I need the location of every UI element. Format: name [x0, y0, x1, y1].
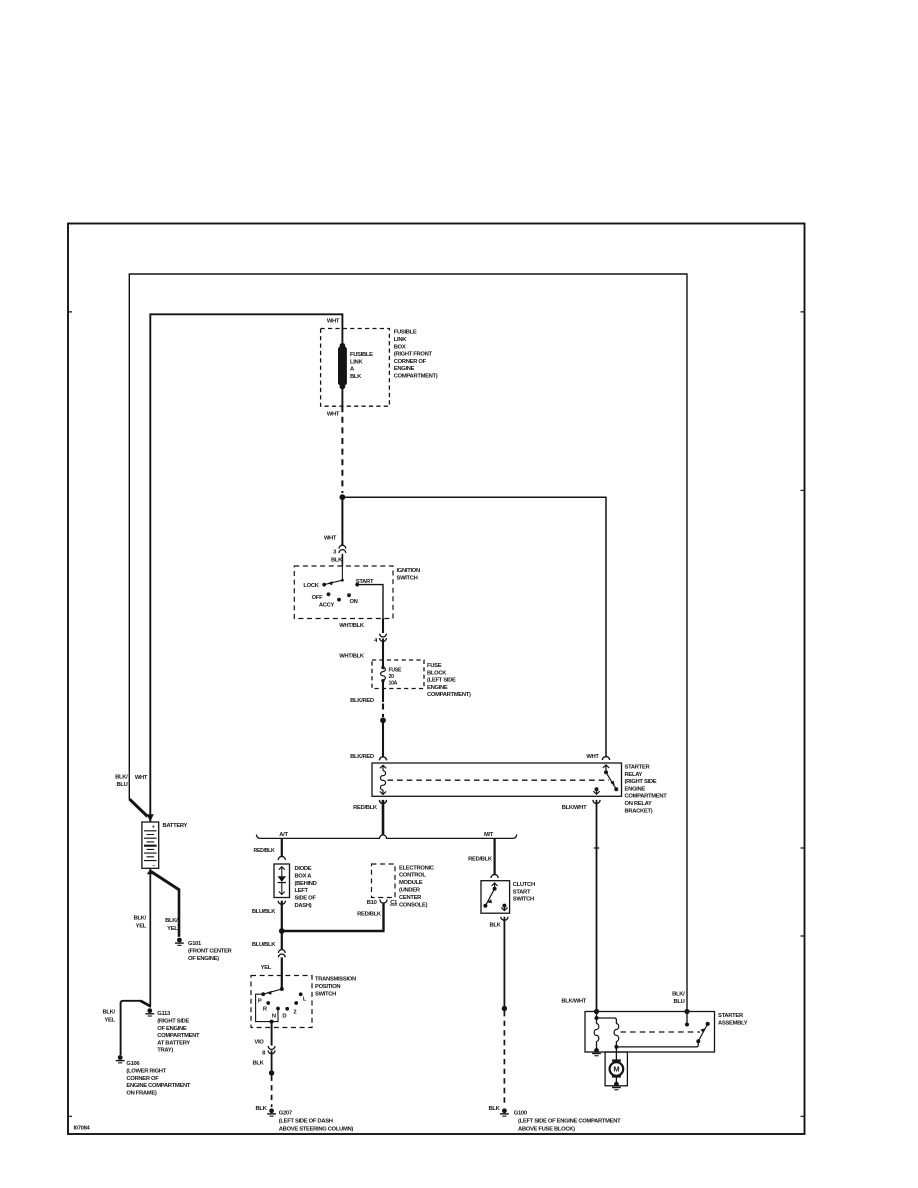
relay switch pivot arrow (down into pivot) [603, 765, 609, 770]
svg-text:BLK/: BLK/ [672, 992, 685, 998]
svg-text:COMPARTMENT): COMPARTMENT) [427, 692, 471, 698]
clutch start switch box [481, 881, 510, 914]
starter motor box [605, 1052, 627, 1086]
fusible link A [338, 343, 347, 389]
svg-text:M/T: M/T [484, 832, 494, 838]
TPS common strap P-N [256, 994, 278, 1021]
wire BLK/WHT relay to starter assembly [596, 800, 598, 1012]
svg-text:IGNITION: IGNITION [397, 568, 420, 574]
label RED/BLK below relay [353, 805, 378, 811]
svg-text:COMPARTMENT: COMPARTMENT [625, 794, 668, 800]
svg-text:OF ENGINE): OF ENGINE) [188, 956, 219, 962]
svg-text:G101: G101 [188, 941, 202, 947]
svg-text:BLK/: BLK/ [165, 918, 178, 924]
label BLK/YEL (right, G101 branch) [165, 918, 178, 932]
svg-text:BRACKET): BRACKET) [625, 808, 653, 814]
wire BLK below clutch switch [503, 917, 505, 1006]
svg-text:(LEFT SIDE OF ENGINE COMPARTME: (LEFT SIDE OF ENGINE COMPARTMENT [518, 1119, 621, 1125]
svg-text:WHT/BLK: WHT/BLK [339, 623, 365, 629]
label BLK/WHT above starter [561, 999, 586, 1005]
svg-text:CLUTCH: CLUTCH [513, 882, 535, 888]
svg-text:BLK/WHT: BLK/WHT [561, 999, 586, 1005]
clutch switch output contact [502, 904, 506, 908]
ignition lever (to LOCK) [324, 580, 342, 584]
relay output contact [595, 787, 599, 791]
svg-text:(LEFT SIDE: (LEFT SIDE [427, 678, 456, 684]
svg-text:BOX A: BOX A [295, 873, 313, 879]
svg-text:SWITCH: SWITCH [513, 897, 534, 903]
wire starter coil feed [596, 1012, 598, 1024]
svg-text:YEL: YEL [167, 926, 178, 932]
label BLK/BLU near battery [115, 774, 128, 788]
starter solenoid actuation dashed line [621, 1031, 701, 1033]
svg-text:N: N [272, 1013, 276, 1019]
diode D1 [278, 876, 286, 882]
svg-text:START: START [513, 889, 531, 895]
wire BLK dashed to G207 [271, 1076, 273, 1108]
svg-text:RED/BLK: RED/BLK [353, 805, 378, 811]
svg-text:BLOCK: BLOCK [427, 670, 447, 676]
ignition switch box (dashed) [294, 566, 393, 619]
contact ON [347, 593, 351, 597]
contact D [285, 1007, 289, 1011]
border tick marks [68, 312, 805, 1116]
wire WHT junction to starter relay feed (horizontal) [342, 497, 606, 757]
svg-text:2: 2 [293, 1009, 296, 1015]
svg-text:BOX: BOX [394, 344, 406, 350]
TPS pivot [280, 987, 284, 991]
svg-text:I07084: I07084 [74, 1126, 91, 1132]
svg-text:YEL: YEL [104, 1017, 115, 1023]
contact LOCK [322, 583, 326, 587]
ground G106 [116, 1055, 125, 1063]
wire WHT/BLK out of ignition switch [382, 619, 384, 634]
svg-text:10A: 10A [389, 680, 398, 686]
relay coil [380, 771, 385, 790]
svg-text:LINK: LINK [350, 359, 363, 365]
svg-text:TRANSMISSION: TRANSMISSION [315, 977, 356, 983]
motor brush (bottom) [612, 1075, 621, 1077]
svg-text:(FRONT CENTER: (FRONT CENTER [188, 949, 233, 955]
label BLK/YEL (center) [134, 916, 147, 930]
svg-text:ENGINE: ENGINE [625, 786, 646, 792]
figure id I07084 [74, 1126, 91, 1132]
wire WHT junction down to ignition switch [341, 497, 343, 545]
svg-text:WHT: WHT [135, 775, 148, 781]
contact ACCY [337, 598, 341, 602]
svg-text:ASSEMBLY: ASSEMBLY [718, 1020, 748, 1026]
svg-text:WHT: WHT [327, 319, 340, 325]
svg-text:LINK: LINK [394, 337, 407, 343]
svg-text:RED/BLK: RED/BLK [357, 911, 382, 917]
node junction BLK [269, 1070, 274, 1075]
wire WHT loop (battery + to fusible link) [150, 314, 342, 821]
contact 2 [294, 1001, 298, 1005]
svg-text:P: P [258, 998, 262, 1004]
clutch switch input arrow (up) [492, 883, 498, 887]
wire BLK dashed to G100 [503, 1011, 505, 1107]
svg-text:(LOWER RIGHT: (LOWER RIGHT [126, 1069, 166, 1075]
svg-text:CONSOLE): CONSOLE) [399, 902, 428, 908]
svg-text:FUSE: FUSE [427, 663, 442, 669]
svg-text:G100: G100 [514, 1111, 527, 1117]
svg-text:YEL: YEL [136, 923, 147, 929]
label BLK/BLU above starter [672, 992, 685, 1006]
svg-text:DASH): DASH) [295, 903, 312, 909]
svg-text:SWITCH: SWITCH [315, 991, 336, 997]
svg-text:BLK: BLK [252, 1060, 264, 1066]
node starter coil branch [595, 1016, 599, 1020]
wire BLK/RED below fuse block [382, 681, 384, 702]
wire branch to G106 (thick elbow) [141, 1001, 151, 1006]
wire ignition input to pivot [341, 566, 343, 580]
svg-text:ON: ON [349, 599, 357, 605]
wire VIO out of TPS [271, 1022, 273, 1046]
diode output arrow (down) [279, 883, 285, 894]
svg-text:SIDE OF: SIDE OF [295, 896, 317, 902]
label DIODE BOX A [295, 866, 317, 909]
bus bar A/T M/T split [256, 835, 516, 839]
node battery - terminal arrow [147, 869, 154, 875]
ground G113 [145, 1008, 154, 1016]
wire branch to pull-in coil [597, 1018, 617, 1024]
svg-text:FUSE: FUSE [389, 667, 402, 673]
svg-text:SWITCH: SWITCH [397, 575, 418, 581]
battery plates [144, 831, 157, 842]
wire BLK/RED to starter relay coil [382, 720, 384, 757]
svg-text:ON RELAY: ON RELAY [625, 801, 652, 807]
svg-text:WHT: WHT [586, 754, 599, 760]
starter pull-in coil [614, 1024, 619, 1042]
svg-text:BLK: BLK [350, 374, 362, 380]
svg-text:BLU/BLK: BLU/BLK [252, 942, 276, 948]
svg-text:ON FRAME): ON FRAME) [126, 1090, 157, 1096]
svg-text:BLK/: BLK/ [134, 916, 147, 922]
svg-text:FUSIBLE: FUSIBLE [394, 330, 417, 336]
wire BLK/BLU diagonal into battery + [130, 799, 148, 816]
starter solenoid switch lever [696, 1039, 700, 1043]
contact L [299, 992, 303, 996]
svg-text:LEFT: LEFT [295, 888, 309, 894]
label BLK/YEL (G106 branch) [102, 1010, 115, 1024]
svg-text:ELECTRONIC: ELECTRONIC [399, 865, 435, 871]
node battery + terminal arrow [147, 814, 154, 822]
svg-text:+: + [152, 825, 155, 831]
fuse block box (dashed) [372, 660, 424, 689]
svg-text:TRAY): TRAY) [157, 1048, 173, 1054]
connector arc at relay switch output [593, 800, 600, 804]
label BATTERY [163, 823, 188, 829]
svg-text:(LEFT SIDE OF DASH: (LEFT SIDE OF DASH [279, 1119, 333, 1125]
node BLK/WHT at starter box [594, 1009, 599, 1014]
svg-text:CORNER OF: CORNER OF [394, 359, 427, 365]
svg-text:BLK: BLK [255, 1106, 267, 1112]
svg-text:M: M [613, 1065, 619, 1074]
svg-text:RED/BLK: RED/BLK [468, 856, 493, 862]
battery B1 [142, 822, 159, 868]
wire battery - center down to G113 [149, 869, 151, 1008]
wire RED/BLK A/T branch [281, 838, 283, 857]
svg-text:VIO: VIO [254, 1039, 264, 1045]
wire RED/BLK relay to A/T-M/T bus [382, 800, 385, 835]
wire RED/BLK ECM to junction [283, 903, 385, 931]
wire BLK/BLU to solenoid fixed contact [686, 1012, 688, 1025]
diode input arrow (up) [279, 867, 285, 877]
wire WHT dashed drop to junction [341, 406, 343, 493]
svg-text:20: 20 [389, 674, 395, 680]
label WHT above fusible link box [327, 319, 340, 325]
label FUSE BLOCK (right of box) [427, 663, 471, 698]
wire BLU/BLK diode to junction [281, 901, 283, 931]
TPS lever to P [263, 989, 282, 994]
svg-text:BLK/: BLK/ [102, 1010, 115, 1016]
contact START [355, 583, 359, 587]
motor brush (top) [612, 1059, 621, 1061]
svg-text:(BEHIND: (BEHIND [295, 881, 317, 887]
svg-text:OF ENGINE: OF ENGINE [157, 1026, 187, 1032]
svg-text:CORNER OF: CORNER OF [126, 1076, 159, 1082]
connector 4 (inline) [380, 634, 387, 637]
label M/T [484, 832, 494, 838]
label WHT above relay switch input [586, 754, 599, 760]
contact P [261, 992, 265, 996]
starter motor M [610, 1062, 624, 1076]
svg-text:MODULE: MODULE [399, 880, 423, 886]
connector 3 (inline) [339, 545, 346, 548]
relay coil terminal arrow (up) [380, 765, 386, 771]
ground G207 [267, 1108, 276, 1116]
svg-text:WHT/BLK: WHT/BLK [339, 654, 365, 660]
node ignition pivot [341, 579, 344, 582]
node BLK/BLU at starter box [684, 1009, 689, 1014]
svg-text:D: D [282, 1013, 286, 1019]
wire BLK/RED dashed segment [382, 704, 384, 718]
fusible link box (dashed) [321, 329, 390, 407]
wire to motor [615, 1047, 617, 1060]
border frame [68, 224, 805, 1135]
svg-text:WHT: WHT [327, 412, 340, 418]
ground starter hold-in coil [592, 1048, 601, 1056]
tick on BLK/WHT wire [594, 847, 599, 849]
svg-text:CENTER: CENTER [399, 895, 422, 901]
connector arc at clutch start switch input [491, 874, 498, 878]
transmission position switch box (dashed) [251, 976, 312, 1028]
svg-text:WHT: WHT [324, 535, 337, 541]
svg-text:ENGINE: ENGINE [394, 366, 415, 372]
label WHT below box [327, 412, 340, 418]
svg-text:G106: G106 [126, 1061, 140, 1067]
svg-text:COMPARTMENT: COMPARTMENT [157, 1033, 200, 1039]
svg-text:B10: B10 [367, 900, 377, 906]
svg-text:BLK: BLK [489, 922, 501, 928]
connector arc at relay coil input [379, 757, 386, 761]
svg-text:ENGINE COMPARTMENT: ENGINE COMPARTMENT [126, 1083, 190, 1089]
label STARTER RELAY [625, 765, 668, 815]
svg-text:(RIGHT SIDE: (RIGHT SIDE [625, 779, 657, 785]
connector arc at clutch switch output [501, 917, 508, 921]
contact OFF [327, 592, 331, 596]
fuse 20 10A [381, 666, 384, 669]
clutch switch pivot [493, 887, 497, 891]
svg-text:LOCK: LOCK [303, 583, 319, 589]
svg-text:YEL: YEL [261, 965, 272, 971]
relay switch pivot [604, 770, 608, 774]
node junction WHT [340, 494, 346, 500]
relay coil terminal arrow (down) [380, 790, 386, 794]
svg-text:(UNDER: (UNDER [399, 888, 421, 894]
svg-text:BLK/: BLK/ [115, 774, 128, 780]
svg-text:OFF: OFF [312, 595, 323, 601]
connector arc at diode box input [278, 856, 285, 860]
label A/T [279, 832, 288, 838]
svg-text:G113: G113 [157, 1011, 171, 1017]
svg-text:BLK: BLK [488, 1106, 500, 1112]
wire hold-in coil to ground [596, 1041, 598, 1049]
wire WHT/BLK to fuse block [382, 639, 384, 667]
svg-text:ACCY: ACCY [319, 603, 335, 609]
svg-text:G207: G207 [279, 1111, 292, 1117]
connector arc at relay switch input [602, 756, 609, 760]
svg-text:BLK/RED: BLK/RED [350, 698, 374, 704]
starter relay box [372, 763, 622, 796]
wire pull-in coil to solenoid contact [616, 1043, 698, 1047]
starter assembly box [585, 1012, 715, 1053]
contact N [276, 1007, 280, 1011]
svg-text:ABOVE STEERING COLUMN): ABOVE STEERING COLUMN) [279, 1127, 354, 1133]
svg-text:FUSIBLE: FUSIBLE [350, 352, 373, 358]
wire BLK below connector 8 [271, 1050, 273, 1070]
diode box A [274, 864, 290, 898]
svg-text:AT BATTERY: AT BATTERY [157, 1040, 190, 1046]
svg-text:BLK/WHT: BLK/WHT [562, 805, 587, 811]
connector arc at diode box output [278, 901, 285, 905]
node junction BLU/BLK [279, 928, 285, 934]
svg-text:COMPARTMENT): COMPARTMENT) [394, 374, 438, 380]
node junction BLK (M/T) [502, 1006, 507, 1011]
clutch switch lever end contact [483, 904, 487, 908]
connector arc at relay coil output [379, 800, 386, 804]
wire WHT below fusible link (solid stub) [341, 385, 343, 406]
svg-text:POSITION: POSITION [315, 984, 340, 990]
wire battery - to G101 (thick diagonal) [151, 872, 179, 890]
node TPS output [270, 1020, 274, 1024]
relay actuation dashed line [388, 779, 610, 781]
clutch switch output arrow (down) [501, 906, 507, 911]
svg-text:BLU: BLU [116, 782, 127, 788]
svg-text:STARTER: STARTER [718, 1013, 744, 1019]
node junction BLK/RED [380, 717, 386, 723]
svg-text:ENGINE: ENGINE [427, 685, 448, 691]
label BLK/WHT below relay [562, 805, 587, 811]
svg-text:A/T: A/T [279, 832, 288, 838]
wire BLK/YEL down to G101 [178, 889, 181, 937]
wire BLK/BLU main loop (battery + to starter assembly) [129, 274, 687, 1012]
svg-text:RELAY: RELAY [625, 772, 643, 778]
svg-text:BLU/BLK: BLU/BLK [252, 909, 276, 915]
svg-text:BLK: BLK [331, 558, 343, 564]
electronic control module box (dashed) [372, 864, 396, 898]
relay switch lever [606, 772, 616, 789]
svg-text:−: − [152, 863, 155, 869]
label FUSIBLE LINK BOX (right of box) [394, 330, 438, 380]
node pull-in coil output [615, 1041, 617, 1047]
label WHT above connector 3 [324, 535, 337, 541]
svg-text:CONTROL: CONTROL [399, 873, 426, 879]
wire START to ignition output [357, 585, 383, 619]
wire BLU/BLK junction to connector [281, 931, 283, 950]
svg-text:BLK/RED: BLK/RED [350, 754, 374, 760]
connector C1 at ECM pin B10 [380, 900, 387, 904]
svg-text:DIODE: DIODE [295, 866, 312, 872]
connector 8 (inline) [268, 1046, 275, 1049]
ground G101 [175, 938, 184, 946]
svg-text:RED/BLK: RED/BLK [254, 848, 276, 854]
svg-text:ABOVE FUSE BLOCK): ABOVE FUSE BLOCK) [518, 1127, 575, 1133]
wire motor to ground [615, 1078, 617, 1083]
ground G100 [500, 1108, 509, 1116]
svg-text:(RIGHT SIDE: (RIGHT SIDE [157, 1019, 189, 1025]
inline connector YEL/BLU-BLK [278, 950, 285, 953]
relay switch lever end contact [614, 787, 618, 791]
svg-text:STARTER: STARTER [625, 765, 651, 771]
wire RED/BLK M/T branch [494, 838, 496, 875]
svg-text:BATTERY: BATTERY [163, 823, 188, 829]
clutch switch lever [485, 889, 494, 906]
wire BLK into ignition switch [341, 554, 343, 566]
svg-text:(RIGHT FRONT: (RIGHT FRONT [394, 352, 433, 358]
label BLK below connector 3 [331, 558, 343, 564]
svg-text:BLU: BLU [673, 999, 684, 1005]
starter hold-in coil [594, 1024, 599, 1042]
contact R [266, 1001, 270, 1005]
relay output terminal arrow (down) [593, 789, 599, 794]
wire YEL to transmission position switch [281, 957, 283, 989]
label WHT near battery [135, 775, 148, 781]
ground starter motor [612, 1082, 621, 1091]
